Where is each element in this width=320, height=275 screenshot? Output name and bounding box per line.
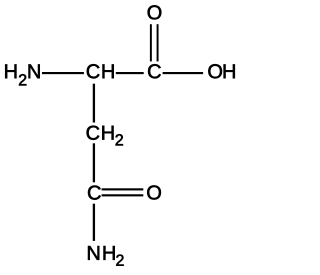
alpha carbon CH (87, 64, 114, 78)
amino group H2N (5, 64, 39, 85)
double bond C=O line 2 (157, 24, 159, 61)
bond H2N-CH (42, 72, 84, 74)
carboxyl carbon C (148, 64, 161, 78)
double bond C=O line 1 (150, 24, 152, 61)
hydroxyl group OH (208, 64, 234, 78)
amide carbon C (88, 186, 101, 200)
amide group NH2 (88, 246, 124, 266)
double bond C=O line 1 (102, 188, 144, 190)
bond C-NH2 (93, 204, 95, 241)
amide oxygen O (147, 185, 161, 199)
bond CH2-C (93, 143, 95, 182)
methylene group CH2 (87, 126, 123, 146)
double bond C=O line 2 (102, 194, 144, 196)
bond CH-C (116, 72, 144, 74)
carbonyl oxygen O (148, 5, 162, 19)
bond CH-CH2 (93, 84, 95, 123)
bond C-OH (163, 72, 204, 74)
